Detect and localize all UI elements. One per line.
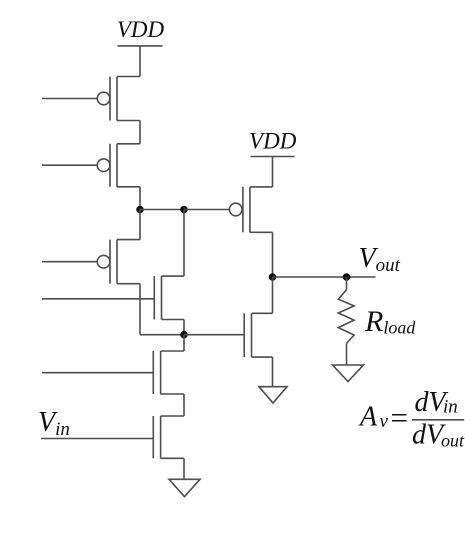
wire M4 source to output node	[272, 232, 274, 277]
svg-text:VDD: VDD	[117, 17, 165, 42]
wire node B to M4 gate bubble	[184, 209, 229, 211]
wire M1 source to M2 drain	[139, 121, 141, 144]
node B (junction dot)	[180, 206, 188, 214]
transistor M5 (NMOS cascode, middle)	[154, 276, 184, 319]
VDD supply rail (right)	[251, 156, 295, 158]
wire M3 source to node C	[140, 334, 184, 336]
svg-text:=: =	[389, 400, 410, 435]
resistor Rload	[338, 277, 354, 365]
transistor M3 (PMOS, third left)	[97, 210, 140, 284]
equation Av = dVin/dVout	[358, 387, 465, 451]
ground symbol (below Rload)	[333, 365, 364, 382]
wire M8 source to ground	[183, 458, 185, 479]
svg-text:Vin: Vin	[38, 407, 70, 440]
VDD supply rail (left)	[118, 45, 163, 47]
node C (junction dot)	[180, 331, 188, 339]
wire VDD rail to M1 drain	[139, 46, 141, 77]
node Vout (junction dot)	[269, 273, 277, 281]
node A (junction dot)	[136, 206, 144, 214]
transistor M6 (NMOS output device, right)	[244, 313, 272, 357]
svg-text:Rload: Rload	[364, 305, 416, 338]
wire node A to node B	[140, 209, 184, 211]
svg-text:A: A	[358, 402, 378, 433]
wire M5 source to node C	[183, 320, 185, 335]
wire M3 gate input	[42, 261, 97, 263]
transistor M8 (NMOS input device, bottom)	[153, 416, 184, 458]
wire M7 source to M8 drain	[183, 394, 185, 416]
node at resistor top (junction dot)	[343, 273, 351, 281]
wire M5 gate input	[42, 298, 154, 300]
wire Vin input to M8 gate	[41, 438, 153, 440]
transistor M2 (PMOS, second left)	[97, 144, 140, 187]
wire VDD rail to M4 drain	[272, 157, 274, 187]
transistor M7 (NMOS, lower middle)	[153, 351, 184, 394]
svg-text:in: in	[443, 397, 458, 418]
wire M7 gate input	[42, 372, 153, 374]
wire output node to Vout terminal	[273, 276, 376, 278]
wire output node down to M6 drain	[272, 277, 274, 313]
transistor M1 (PMOS, top left)	[97, 77, 140, 121]
equation fraction bar	[412, 419, 464, 421]
svg-text:v: v	[380, 411, 389, 432]
svg-text:out: out	[441, 431, 465, 451]
wire M3 source down to node C row	[139, 284, 141, 335]
wire M2 source to node A	[139, 187, 141, 210]
svg-text:VDD: VDD	[249, 129, 297, 154]
wire node C down to M7 drain	[183, 335, 185, 351]
wire M6 source to ground	[272, 357, 274, 387]
wire M1 gate input	[42, 98, 97, 100]
ground symbol (below M6)	[259, 387, 287, 403]
wire node B down to M5 drain	[183, 210, 185, 277]
wire node C to M6 gate	[184, 334, 244, 336]
ground symbol (below M8)	[169, 479, 200, 496]
transistor M4 (PMOS output load, right)	[229, 187, 272, 232]
svg-text:Vout: Vout	[359, 243, 401, 276]
wire M2 gate input	[42, 164, 97, 166]
